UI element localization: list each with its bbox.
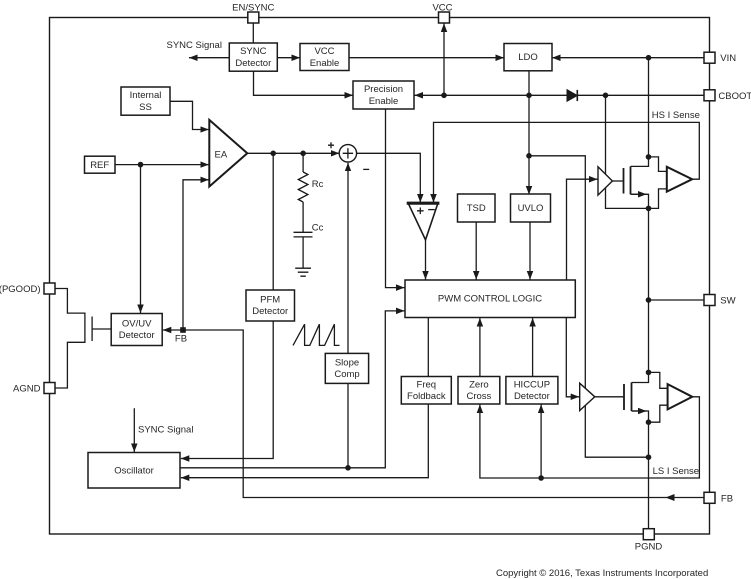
node ramp junction to Slope Comp [345,465,351,471]
svg-text:VIN: VIN [720,53,736,64]
wire HS sense tap source [649,189,667,209]
port VCC [432,2,452,23]
port FB [704,492,733,504]
svg-text:SS: SS [139,102,152,113]
wire SYNC Signal out (to left arrow) [189,57,229,59]
comparator U1 [407,203,440,240]
svg-text:Oscillator: Oscillator [114,466,154,477]
sawtooth waveform [293,324,340,345]
wire CBOOT rail through HS driver to SW node [606,95,649,208]
svg-text:VCC: VCC [432,2,452,13]
summing junction [328,142,369,169]
node LDO-CBOOT junction [526,93,532,99]
svg-text:FB: FB [721,494,733,505]
wire HS gate lead [612,180,623,182]
port PGND [635,529,663,553]
block Zero Cross [458,377,500,405]
svg-text:EN/SYNC: EN/SYNC [232,2,274,13]
wire Precision Enable to PWM [386,109,405,288]
svg-text:OV/UV: OV/UV [122,318,152,329]
wire summing to comparator [357,153,421,202]
block VCC Enable [300,44,349,71]
block LDO [504,44,552,71]
block Precision Enable [353,81,414,109]
wire UVLO to PWM [529,222,531,280]
svg-text:Slope: Slope [335,357,359,368]
block Internal SS [121,87,170,115]
wire VCC Enable to LDO [349,57,504,59]
wire Zero Cross to PWM [479,318,481,377]
block HICCUP Detector [506,377,558,405]
wire Cc to ground [302,237,304,268]
wire Rc branch [302,153,304,172]
FB direction arrow [666,494,675,501]
port PGOOD [0,283,55,295]
node LS driver rail junction [646,454,652,460]
wire slope comp to summing input [347,163,349,468]
wire PGOOD transistor path [55,289,85,389]
node FB junction [180,327,186,333]
wire VCC rail to LS driver [529,156,649,457]
svg-text:Cc: Cc [312,223,324,234]
svg-text:Enable: Enable [369,96,399,107]
node Rc branch [300,151,306,157]
block OV/UV Detector [111,314,162,346]
node VIN rail junction [646,55,652,61]
svg-text:EA: EA [215,149,228,160]
block SYNC Detector [229,43,277,71]
transistor Q1 gate bar [91,317,93,342]
wire REF to OV/UV [140,165,142,313]
svg-text:Detector: Detector [235,58,271,69]
op-amp EA [209,120,247,187]
block UVLO [511,194,551,222]
wire VIN line [552,57,704,59]
port EN/SYNC [232,2,274,23]
wire LS I Sense to Zero Cross [480,397,700,478]
svg-text:Freq: Freq [417,379,437,390]
svg-text:Copyright © 2016, Texas Instru: Copyright © 2016, Texas Instruments Inco… [496,568,708,579]
svg-text:TSD: TSD [467,203,486,214]
wire PWM to HS driver [567,179,598,280]
wire VCC stem [443,24,445,96]
wire FB to EA [183,180,209,330]
wire Q1 gate lead [92,328,111,330]
svg-text:LDO: LDO [518,52,538,63]
svg-text:AGND: AGND [13,383,41,394]
wire main power path VIN to PGND [631,58,649,534]
node HS source sense [646,206,652,212]
wire LS gate lead [595,396,624,398]
svg-text:Cross: Cross [466,391,491,402]
node VCC stem junction [441,93,447,99]
port CBOOT [704,90,751,102]
LS sense amp [668,384,693,409]
svg-text:Foldback: Foldback [407,391,446,402]
wire Freq Foldback to oscillator [181,404,428,478]
block Freq Foldback [401,377,451,405]
capacitor Cc [294,232,313,237]
wire PWM to LS driver [566,318,579,397]
wire CBOOT net [415,94,705,96]
svg-text:SYNC Signal: SYNC Signal [167,40,222,51]
block REF [85,156,116,173]
svg-text:Enable: Enable [310,58,340,69]
svg-text:VCC: VCC [314,46,334,57]
wire HS sense out / HS I Sense line [434,122,700,202]
wire REF to EA [115,164,209,166]
svg-text:SYNC Signal: SYNC Signal [138,425,193,436]
transistor HS MOSFET [624,166,631,194]
svg-text:LS I Sense: LS I Sense [653,466,699,477]
ground [295,268,311,276]
node SW junction [646,297,652,303]
wire EA output [247,152,339,154]
node LS source sense [646,419,652,425]
svg-text:UVLO: UVLO [518,203,544,214]
node CBOOT rail junction [603,93,609,99]
svg-text:Precision: Precision [364,84,403,95]
block PWM CONTROL LOGIC [405,280,575,318]
svg-text:Detector: Detector [514,391,550,402]
wire FB to OV/UV [163,329,183,331]
HS sense amp [667,167,692,192]
svg-text:REF: REF [90,160,109,171]
svg-text:HICCUP: HICCUP [514,379,550,390]
HS gate driver [598,167,612,195]
port AGND [13,383,55,395]
wire FB net to FB port [183,330,704,498]
svg-text:PWM CONTROL LOGIC: PWM CONTROL LOGIC [438,294,542,305]
port VIN [704,52,736,64]
wire SW line [649,299,705,301]
svg-text:PFM: PFM [260,294,280,305]
svg-text:Zero: Zero [469,379,489,390]
node LS I Sense junction [538,475,544,481]
resistor Rc [298,172,308,202]
wire SYNC Detector to Precision Enable [254,71,354,95]
block PFM Detector [246,290,295,321]
svg-text:SYNC: SYNC [240,46,267,57]
svg-text:PGND: PGND [635,542,663,553]
port SW [704,295,736,307]
svg-text:Detector: Detector [119,330,155,341]
wire LDO to UVLO [528,71,530,195]
wire Internal SS to EA [170,101,209,129]
svg-text:FB: FB [175,334,187,345]
wire oscillator ramp output to PWM [180,311,405,468]
wire EA out to PFM Detector and oscillator [181,153,273,458]
node EA output junction to PFM [270,151,276,157]
wire LS source arrow [632,410,647,412]
wire LS sense tap drain [649,372,668,388]
block Slope Comp [325,353,368,383]
svg-text:CBOOT: CBOOT [718,91,751,102]
wire LS I Sense to HICCUP [540,405,542,479]
node REF branch [138,162,144,168]
svg-text:Detector: Detector [252,306,288,317]
wire SYNC Signal to oscillator [133,408,135,452]
node VCC-LS driver junction [526,153,532,159]
node LS drain sense [646,370,652,376]
wire LS sense tap source [649,405,668,422]
block Oscillator [88,453,180,489]
svg-text:Rc: Rc [312,179,324,190]
wire HICCUP to PWM [532,318,534,377]
wire EN/SYNC stem [252,23,254,43]
wire Rc to Cc [302,202,304,232]
svg-text:(PGOOD): (PGOOD) [0,284,41,295]
LS gate driver [580,383,595,410]
svg-text:HS I Sense: HS I Sense [652,110,700,121]
wire comparator to PWM [425,240,427,280]
block TSD [458,194,496,222]
wire Freq Foldback top link [427,318,429,377]
wire HS sense tap drain [649,157,667,172]
wire SYNC Detector to VCC Enable [277,57,300,59]
svg-text:Comp: Comp [334,369,359,380]
wire TSD to PWM [475,222,477,280]
diode D1 [567,90,577,102]
wire HS source arrow [631,193,647,195]
transistor LS MOSFET [624,383,632,412]
svg-text:SW: SW [720,296,735,307]
node HS drain sense [646,154,652,160]
svg-text:Internal: Internal [130,90,162,101]
